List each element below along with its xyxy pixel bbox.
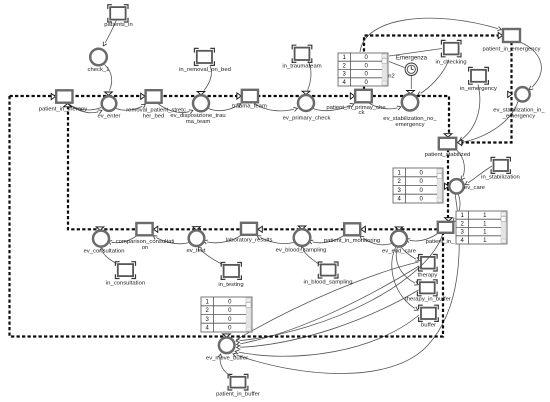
svg-text:therapy: therapy xyxy=(418,273,438,279)
input icon patient_in_buffer xyxy=(228,374,248,390)
arc ev_stabilization_in_emergency to patient_stabilized xyxy=(460,102,519,144)
arrowhead into patient_in_therapy xyxy=(51,93,55,99)
input icon in_consultation xyxy=(115,262,135,279)
arc in_testing to ev_test xyxy=(199,247,223,265)
svg-text:patient_in_monitoring: patient_in_monitoring xyxy=(324,238,380,244)
svg-text:in_emergency: in_emergency xyxy=(460,86,497,92)
input icon therapy xyxy=(419,255,438,272)
arc patient_in_primary_check to patient_in_emergency (top sweep) xyxy=(360,18,501,52)
svg-text:ev_move_buffer: ev_move_buffer xyxy=(206,356,248,362)
svg-text:on: on xyxy=(142,245,149,251)
arrowhead into ev_enter xyxy=(105,92,113,95)
arc in_blood_sampling to ev_blood_sampling xyxy=(302,247,320,265)
place check_1 xyxy=(90,49,107,66)
dashed flow row2 horizontal and up to patient_in_therapy xyxy=(68,104,438,229)
arc comparison_consultation to ev_consultation xyxy=(109,236,138,243)
dashed flow main loop: left border, bottom border xyxy=(10,96,444,337)
svg-text:Emergenza: Emergenza xyxy=(396,55,428,62)
transition removal_patient_stretcher_bed xyxy=(146,90,162,103)
svg-text:in_traumateam: in_traumateam xyxy=(282,64,321,70)
svg-text:ev_primary_check: ev_primary_check xyxy=(283,116,331,122)
arc removal_patient_stretcher_bed to ev_disposizione xyxy=(157,103,193,113)
arc patient_in_monitoring to ev_blood_sampling xyxy=(310,235,345,243)
arc ev_blood_sampling to laboratory_results xyxy=(258,236,295,244)
dashed flow right branch down to patient_stabilized xyxy=(461,42,512,143)
arrowhead into ev_disposizione xyxy=(197,92,205,95)
arc table1 to in_checking xyxy=(389,49,442,57)
arc ev_enter to patient_in_therapy xyxy=(70,105,102,110)
svg-text:n2: n2 xyxy=(388,74,395,80)
arrowhead into ev_stabilization_no_emergency xyxy=(407,91,415,94)
transition comparison_consultation xyxy=(136,223,152,235)
input icon in_blood_sampling xyxy=(318,262,338,278)
arrowhead into ev_stabilization_in_emergency xyxy=(508,91,512,97)
svg-text:in_blood_sampling: in_blood_sampling xyxy=(303,280,352,286)
arc ev_move_buffer to therapy (return sweep) xyxy=(236,262,419,340)
place ev_test xyxy=(189,230,205,246)
svg-text:ev_end_care: ev_end_care xyxy=(382,249,417,255)
arrowhead into patient_in_primary_check xyxy=(350,93,354,99)
svg-text:ck: ck xyxy=(359,110,365,116)
arrowhead into trauma_team xyxy=(237,93,241,99)
arrowhead into ev_consultation xyxy=(96,227,104,230)
transition patient_in_emergency xyxy=(503,29,520,42)
arc ev_primary_check to patient_in_primary_check xyxy=(313,104,354,111)
svg-text:in_consultation: in_consultation xyxy=(106,281,145,287)
svg-text:ev_care: ev_care xyxy=(464,185,486,191)
svg-text:patient_in_: patient_in_ xyxy=(426,239,456,245)
arc patients_in to check_1 xyxy=(104,20,117,46)
arrowhead left into patient_stabilized xyxy=(458,139,462,145)
arc in_traumateam to ev_primary_check xyxy=(308,61,312,91)
arc ev_end_care to patient_in_monitoring xyxy=(361,237,392,245)
arrowhead into removal_patient_stretcher_bed xyxy=(141,93,145,99)
arc ev_end_care to therapy_in_buffer xyxy=(396,247,418,285)
arc table1 to clock Emergenza xyxy=(389,62,405,68)
transition trauma_team xyxy=(242,90,258,103)
transition patient_stabilized xyxy=(439,138,456,150)
place ev_end_care xyxy=(391,231,407,247)
svg-text:trauma_team: trauma_team xyxy=(232,104,267,110)
arc patient_in_buffer to ev_move_buffer xyxy=(220,355,231,377)
arc clock Emergenza to ev_stabilization_no_emergency xyxy=(410,76,412,89)
place ev_stabilization_in_emergency xyxy=(515,87,529,101)
transition patient_in_therapy xyxy=(56,90,72,102)
transition patient_in_monitoring xyxy=(344,223,360,235)
arc patient_in_therapy to ev_enter xyxy=(67,103,102,113)
input icon in_testing xyxy=(221,263,241,280)
arc patient_stabilized to ev_care xyxy=(456,150,464,180)
svg-text:check_1: check_1 xyxy=(88,67,110,73)
arc in_removal_on_bed to ev_disposizione xyxy=(204,66,211,91)
arrowhead into ev_end_care xyxy=(395,227,403,230)
svg-text:patients_in: patients_in xyxy=(104,22,133,28)
svg-text:laboratory_results: laboratory_results xyxy=(226,238,273,244)
arrowhead into ev_test xyxy=(193,227,201,230)
parameter table care params xyxy=(393,168,443,203)
svg-text:ev_consultation: ev_consultation xyxy=(84,249,125,255)
svg-text:ev_enter: ev_enter xyxy=(98,114,121,120)
input icon in_stabilization xyxy=(491,157,510,173)
svg-text:ma_team: ma_team xyxy=(186,119,211,125)
svg-text:patient_in_primay_che: patient_in_primay_che xyxy=(326,105,386,111)
arrowhead into ev_blood_sampling xyxy=(298,226,306,229)
svg-text:in_stabilization: in_stabilization xyxy=(481,175,520,181)
dashed flow top branch to patient_in_emergency xyxy=(364,36,499,91)
arrowhead into ev_move_buffer xyxy=(223,334,231,337)
arc in_checking to ev_stabilization_no_emergency xyxy=(418,60,449,96)
svg-text:buffer: buffer xyxy=(421,323,436,329)
input icon in_traumateam xyxy=(292,45,312,62)
input icon in_emergency xyxy=(469,67,489,84)
svg-text:patient_in_therapy: patient_in_therapy xyxy=(39,107,88,113)
svg-text:her_bed: her_bed xyxy=(143,114,165,120)
svg-text:in_testing: in_testing xyxy=(218,282,243,288)
transition laboratory_results xyxy=(241,223,257,235)
svg-text:ev_blood_sampling: ev_blood_sampling xyxy=(276,248,327,254)
parameter table emergenza params xyxy=(338,53,388,86)
arc ev_care to patient_in_ xyxy=(454,194,461,222)
arc check_1 to ev_enter xyxy=(105,65,112,91)
arc patient_in_ to ev_end_care xyxy=(407,234,438,241)
svg-text:patient_stabilized: patient_stabilized xyxy=(425,152,471,158)
place ev_consultation xyxy=(93,231,109,247)
input icon in_removal_on_bed xyxy=(194,48,214,65)
svg-text:in_checking: in_checking xyxy=(435,60,466,66)
arc laboratory_results to ev_test xyxy=(204,235,242,243)
input icon therapy_in_buffer xyxy=(417,280,437,296)
svg-text:ev_test: ev_test xyxy=(187,248,206,254)
input icon in_checking xyxy=(441,40,461,56)
arc ev_end_care to therapy xyxy=(401,247,419,261)
arc patient_in_primary_check to ev_stabilization_no_emergency xyxy=(368,103,401,109)
arc therapy_in_buffer to ev_move_buffer xyxy=(237,290,419,348)
arrowhead into ev_primary_check xyxy=(302,91,310,94)
arrowhead into laboratory_results xyxy=(258,226,262,232)
arrowhead down into patient_stabilized xyxy=(444,134,452,137)
arc patient_in_ to ev_move_buffer (big sweep) xyxy=(237,234,444,342)
place ev_enter xyxy=(102,96,117,111)
arc in_emergency to patient_stabilized xyxy=(460,85,480,141)
arc ev_care down to ev_move_buffer (outermost sweep) xyxy=(234,194,460,374)
parameter table patient params xyxy=(456,211,507,244)
parameter table buffer params xyxy=(201,297,252,332)
input icon patients_in xyxy=(108,5,128,22)
arc ev_enter to removal_patient_stretcher_bed xyxy=(116,105,145,111)
place ev_stabilization_no_emergency xyxy=(402,94,418,110)
timed event clock Emergenza xyxy=(405,63,417,75)
transition patient_in_ xyxy=(438,222,454,233)
arc ev_test to comparison_consultation xyxy=(154,236,190,244)
arrowhead into comparison_consultation xyxy=(154,226,158,232)
svg-text:therapy_in_buffer: therapy_in_buffer xyxy=(405,297,451,303)
arrowhead down into patient_in_ xyxy=(445,218,453,221)
arrowhead into ev_care xyxy=(445,183,449,189)
arc in_stabilization to ev_care xyxy=(466,166,493,185)
place ev_blood_sampling xyxy=(294,229,311,246)
arc patient_in_emergency to ev_stabilization_in_emergency xyxy=(520,42,541,90)
arc buffer to ev_move_buffer xyxy=(236,315,420,356)
arrowhead into patient_in_emergency xyxy=(498,32,502,38)
place ev_primary_check xyxy=(298,95,314,111)
place ev_care xyxy=(449,179,463,193)
arrowhead up into patient_in_therapy bottom xyxy=(64,104,72,107)
arc ev_end_care to buffer (outer) xyxy=(392,247,418,311)
svg-text:emergency: emergency xyxy=(395,122,424,128)
transition patient_in_primary_check xyxy=(355,90,372,103)
svg-text:patient_in_emergency: patient_in_emergency xyxy=(483,47,541,53)
arc in_consultation to ev_consultation xyxy=(102,248,117,264)
svg-text:patient_in_buffer: patient_in_buffer xyxy=(216,392,260,398)
arc therapy to ev_move_buffer xyxy=(237,266,419,345)
dashed flow row1 horizontal xyxy=(10,96,450,134)
place ev_disposizione_trauma_team xyxy=(193,95,209,111)
svg-text:in_removal_on_bed: in_removal_on_bed xyxy=(179,67,231,73)
arc trauma_team to ev_primary_check xyxy=(253,103,297,111)
input icon buffer xyxy=(419,305,439,321)
place ev_move_buffer xyxy=(219,338,235,354)
svg-text:_emergency: _emergency xyxy=(502,114,535,120)
dashed flow patient_stabilized down to patient_in_ xyxy=(447,149,449,220)
arrowhead into patient_in_monitoring xyxy=(361,226,365,232)
arc ev_disposizione to trauma_team xyxy=(209,104,241,111)
